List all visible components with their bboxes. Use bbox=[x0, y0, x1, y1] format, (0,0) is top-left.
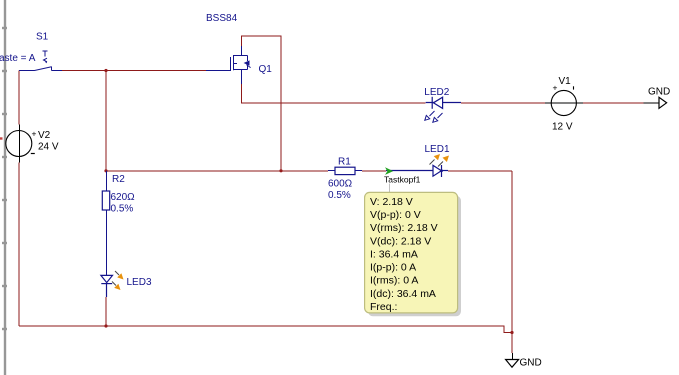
ground right pin stub bbox=[644, 102, 660, 104]
LED1 bbox=[386, 165, 448, 177]
wire mid row left bbox=[106, 170, 328, 172]
svg-text:I(rms): 0 A: I(rms): 0 A bbox=[370, 275, 418, 287]
switch S1 bbox=[19, 51, 62, 71]
svg-text:0.5%: 0.5% bbox=[111, 204, 134, 215]
LED2 arrows bbox=[425, 111, 443, 122]
resistor R1 bbox=[328, 167, 362, 174]
svg-text:V2: V2 bbox=[38, 130, 51, 141]
wire mid row right bbox=[448, 170, 512, 172]
svg-text:+: + bbox=[32, 129, 37, 139]
probe tooltip text bbox=[370, 196, 438, 313]
node junction S1 row bbox=[104, 69, 107, 72]
svg-text:600Ω: 600Ω bbox=[328, 179, 353, 190]
svg-text:V1: V1 bbox=[559, 76, 572, 87]
sheet border bbox=[0, 0, 7, 375]
probe tooltip shadow bbox=[368, 196, 461, 316]
svg-text:V: 2.18 V: V: 2.18 V bbox=[370, 196, 413, 208]
svg-text:GND: GND bbox=[520, 358, 542, 369]
svg-text:V(p-p): 0 V: V(p-p): 0 V bbox=[370, 209, 421, 221]
probe tooltip box bbox=[365, 192, 458, 313]
wire left vertical lower bbox=[18, 163, 20, 327]
wire mid row between R1 and probe bbox=[362, 170, 386, 172]
svg-text:I: 36.4 mA: I: 36.4 mA bbox=[370, 248, 418, 260]
node junction bottom bbox=[104, 324, 107, 327]
node junction mid row left bbox=[104, 169, 107, 172]
wire bottom bbox=[19, 326, 512, 333]
node junction bottom right bbox=[510, 331, 513, 334]
svg-text:12 V: 12 V bbox=[552, 122, 573, 133]
wire V1 to GND bbox=[583, 102, 644, 104]
svg-text:620Ω: 620Ω bbox=[111, 192, 136, 203]
LED3 bbox=[101, 270, 113, 297]
svg-text:+: + bbox=[553, 83, 558, 93]
wire right vertical to ground bbox=[511, 171, 513, 353]
svg-text:R1: R1 bbox=[338, 157, 351, 168]
wire left vertical upper bbox=[18, 71, 20, 125]
LED1 arrows bbox=[430, 154, 450, 167]
ground bottom (GND) bbox=[506, 353, 519, 367]
voltage source V2 bbox=[6, 125, 37, 163]
svg-text:S1: S1 bbox=[36, 32, 49, 43]
svg-text:I(p-p): 0 A: I(p-p): 0 A bbox=[370, 262, 416, 274]
resistor R2 bbox=[102, 171, 109, 270]
LED2 bbox=[426, 97, 461, 109]
wire switch row bbox=[62, 70, 206, 72]
ground right (GND) bbox=[659, 97, 667, 108]
svg-text:LED3: LED3 bbox=[127, 277, 152, 288]
wire drain loop bbox=[241, 36, 281, 171]
probe Tastkopf1 arrow bbox=[385, 167, 393, 175]
LED3 arrows bbox=[112, 271, 124, 290]
svg-text:V(dc): 2.18 V: V(dc): 2.18 V bbox=[370, 235, 431, 247]
wire LED3 bottom segment bbox=[105, 297, 107, 326]
svg-text:LED2: LED2 bbox=[424, 87, 449, 98]
svg-text:24 V: 24 V bbox=[38, 142, 59, 153]
svg-text:Q1: Q1 bbox=[259, 64, 273, 75]
svg-text:R2: R2 bbox=[112, 174, 125, 185]
svg-text:BSS84: BSS84 bbox=[206, 13, 238, 24]
node junction drain loop bbox=[279, 169, 282, 172]
svg-text:V(rms): 2.18 V: V(rms): 2.18 V bbox=[370, 222, 438, 234]
svg-text:Taste = A: Taste = A bbox=[0, 53, 36, 64]
svg-text:Tastkopf1: Tastkopf1 bbox=[384, 175, 421, 185]
wire source row bbox=[241, 84, 425, 103]
svg-text:I(dc): 36.4 mA: I(dc): 36.4 mA bbox=[370, 288, 436, 300]
wire R2 drop bbox=[105, 71, 107, 171]
svg-text:GND: GND bbox=[648, 87, 670, 98]
wire LED2 to V1 bbox=[461, 102, 545, 104]
probe leader line bbox=[389, 184, 391, 193]
svg-text:0.5%: 0.5% bbox=[328, 190, 351, 201]
voltage source V1 bbox=[545, 83, 583, 116]
svg-text:LED1: LED1 bbox=[425, 144, 450, 155]
svg-text:Freq.:: Freq.: bbox=[370, 301, 397, 313]
transistor Q1 (BSS84 p-MOSFET) bbox=[206, 46, 251, 84]
